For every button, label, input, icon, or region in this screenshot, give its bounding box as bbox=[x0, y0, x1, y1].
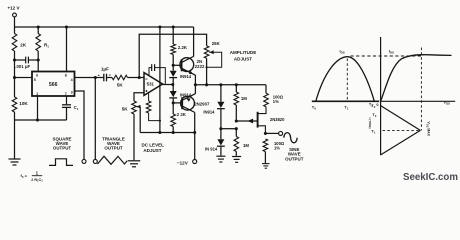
wiper wire down to bottom rail bbox=[139, 107, 141, 133]
ground return wire bbox=[15, 119, 67, 121]
graph 3 VGS triangle bottom line bbox=[381, 130, 421, 155]
svg-text:1: 1 bbox=[36, 92, 38, 96]
wire pin3 square out bbox=[75, 91, 85, 160]
svg-text:.001 μF: .001 μF bbox=[15, 64, 30, 69]
resistor 2K bbox=[12, 34, 17, 52]
svg-text:1M: 1M bbox=[243, 143, 249, 148]
capacitor C1 bbox=[62, 104, 71, 106]
svg-text:25K: 25K bbox=[212, 41, 221, 46]
graph 2 vertical axis bbox=[380, 37, 382, 101]
svg-text:3: 3 bbox=[71, 91, 73, 95]
resistor 2.2K (lower) bbox=[172, 103, 174, 114]
wire pin4 triangle out bbox=[75, 77, 104, 79]
pot top wire to op-amp + input bbox=[134, 93, 144, 101]
resistor R1 bbox=[37, 25, 40, 28]
svg-text:OUTPUT: OUTPUT bbox=[285, 157, 304, 162]
resistor 5K series bbox=[112, 75, 128, 80]
svg-text:ADJUST: ADJUST bbox=[234, 56, 252, 61]
wire to triangle output terminal bbox=[94, 78, 96, 160]
svg-text:OUTPUT: OUTPUT bbox=[53, 146, 72, 151]
ground (left rail) bbox=[9, 158, 21, 160]
resistor 10K bbox=[12, 97, 17, 112]
clamp node wire bbox=[195, 84, 266, 86]
long vertical wire from bus to bottom rail bbox=[158, 25, 161, 28]
svg-text:10K: 10K bbox=[19, 101, 28, 106]
diode D3 1N914 bbox=[220, 85, 222, 102]
diode D1 1N914 bbox=[172, 65, 174, 70]
svg-text:5: 5 bbox=[34, 78, 36, 82]
graph 2 horizontal axis bbox=[381, 100, 456, 102]
svg-text:t (TIME): t (TIME) bbox=[368, 118, 372, 129]
svg-text:566: 566 bbox=[49, 82, 58, 88]
svg-text:531: 531 bbox=[147, 82, 155, 87]
ground (source resistor) bbox=[262, 163, 270, 165]
svg-text:+12 V: +12 V bbox=[7, 5, 19, 10]
resistor 100 ohm 1% (drain) bbox=[264, 93, 269, 107]
ground (diode D4) bbox=[216, 155, 225, 157]
svg-text:8: 8 bbox=[65, 74, 67, 78]
graph 3 dashed T1 line bbox=[383, 129, 419, 131]
transistor Q2 2N2907 bbox=[181, 96, 195, 110]
pot bottom wire to ground bbox=[133, 114, 135, 160]
svg-text:2N2907: 2N2907 bbox=[194, 102, 210, 107]
svg-text:DC LEVEL: DC LEVEL bbox=[141, 143, 164, 148]
graph 3 VGS triangle top line bbox=[381, 106, 421, 131]
graph 2 dashed vertical bbox=[420, 48, 422, 131]
wire to -12V terminal bbox=[194, 133, 196, 160]
svg-text:2222: 2222 bbox=[195, 64, 205, 69]
resistor 1M (upper) bbox=[235, 85, 237, 92]
svg-text:IN914: IN914 bbox=[180, 74, 192, 79]
sine wave glyph bbox=[284, 133, 297, 143]
svg-text:2 2K: 2 2K bbox=[177, 112, 187, 117]
wire pin7 to C1 bbox=[66, 96, 68, 104]
wire 2K down left rail bbox=[14, 51, 16, 97]
resistor 1M (lower) bbox=[234, 137, 239, 152]
wire pin1 to ground return bbox=[37, 96, 39, 120]
svg-text:−12V: −12V bbox=[177, 161, 188, 166]
bottom rail wire bbox=[140, 132, 195, 134]
svg-text:1%: 1% bbox=[273, 99, 279, 104]
svg-text:SeekIC.com: SeekIC.com bbox=[403, 172, 458, 183]
svg-text:2N3820: 2N3820 bbox=[270, 117, 285, 122]
transistor Q1 2N2222 bbox=[180, 58, 194, 72]
svg-text:2.2K: 2.2K bbox=[178, 45, 188, 50]
feedback resistor 5K (unlabeled) bbox=[148, 93, 150, 101]
graph 1 time axis bbox=[312, 100, 380, 102]
diode D4 1N914 bbox=[220, 129, 222, 140]
resistor 2.2K (upper) bbox=[172, 25, 175, 28]
compensation capacitor over op-amp bbox=[149, 68, 152, 76]
svg-text:AMPLITUDE: AMPLITUDE bbox=[230, 50, 257, 55]
wire 5K to op-amp bbox=[128, 77, 145, 79]
wire +12V to bus bbox=[14, 17, 16, 27]
svg-text:+: + bbox=[98, 74, 100, 78]
svg-text:5K: 5K bbox=[117, 82, 124, 87]
JFET Q3 2N3820 bbox=[257, 112, 259, 128]
square wave glyph bbox=[49, 159, 73, 166]
svg-text:1M: 1M bbox=[241, 96, 247, 101]
resistor 100 ohm 1% (source) bbox=[263, 139, 268, 152]
ground (DC level pot) bbox=[128, 160, 141, 162]
triangle wave glyph bbox=[98, 156, 128, 164]
collector wire to bus corner bbox=[193, 27, 195, 57]
graph 2 IDS vs VDS curve bbox=[381, 55, 452, 101]
svg-text:IN914: IN914 bbox=[203, 109, 215, 114]
cross wire diodes to 1M bbox=[221, 128, 236, 130]
diode D2 1N914 bbox=[172, 85, 174, 92]
left rail to ground bbox=[14, 112, 16, 159]
capacitor .001uF bbox=[13, 58, 16, 61]
svg-text:OUTPUT: OUTPUT bbox=[104, 146, 123, 151]
dashed IDS level line bbox=[351, 55, 422, 57]
wire input node up and over to 25K pot bbox=[139, 34, 206, 77]
wire pin8 to bus bbox=[65, 25, 68, 28]
svg-text:7: 7 bbox=[65, 92, 67, 96]
graph 1 IDS hump curve bbox=[316, 57, 375, 102]
wire R1 to pin6 bbox=[37, 51, 39, 72]
potentiometer 5K DC level bbox=[132, 101, 137, 114]
svg-text:6: 6 bbox=[36, 74, 38, 78]
25K pot amplitude adjust bbox=[204, 46, 209, 59]
svg-text:1%: 1% bbox=[274, 145, 280, 150]
svg-text:IN 914: IN 914 bbox=[205, 147, 218, 152]
svg-text:2K: 2K bbox=[20, 42, 27, 47]
gate wire to JFET bbox=[236, 120, 257, 122]
graph 1 dashed peak vertical bbox=[346, 59, 348, 102]
+12V bus wire bbox=[15, 26, 194, 28]
op-amp U2 531 bbox=[144, 73, 163, 96]
op-amp output wire to diode node bbox=[162, 84, 172, 86]
ground (1M lower) bbox=[232, 156, 241, 158]
svg-text:0: 0 bbox=[376, 102, 378, 107]
IC U1 566 bbox=[32, 72, 75, 97]
wire pin5 bbox=[13, 76, 16, 79]
svg-text:5K: 5K bbox=[122, 106, 129, 111]
graph 3 time axis downward bbox=[380, 101, 382, 155]
sine output terminal bbox=[264, 132, 267, 135]
svg-text:1μF: 1μF bbox=[101, 66, 109, 71]
svg-text:ADJUST: ADJUST bbox=[143, 148, 161, 153]
